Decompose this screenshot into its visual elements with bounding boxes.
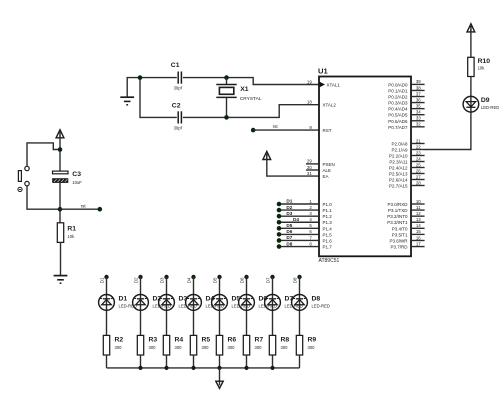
svg-text:38: 38 [416, 85, 421, 90]
svg-text:D5: D5 [286, 223, 292, 228]
terminal rst left [98, 207, 103, 212]
wire power to R10 [470, 32, 472, 58]
svg-text:P3.5/T1: P3.5/T1 [392, 232, 408, 237]
resistor R7 [243, 335, 249, 355]
LED D4 [186, 295, 202, 311]
wire R2 to rail [106, 355, 108, 368]
ground top-left [120, 97, 134, 105]
pin stub P0.4/AD4 [411, 108, 424, 110]
svg-text:25: 25 [416, 162, 421, 167]
svg-text:26: 26 [416, 168, 421, 173]
svg-text:P1.5: P1.5 [323, 232, 333, 237]
pin stub P0.1/AD1 [411, 89, 424, 91]
pin stub P2.1/A9 [411, 149, 424, 151]
svg-text:C1: C1 [171, 62, 180, 69]
svg-text:27: 27 [416, 174, 421, 179]
junction rail [217, 366, 221, 370]
push button switch [18, 166, 29, 191]
svg-text:P3.1/TXD: P3.1/TXD [388, 208, 408, 213]
svg-text:EA: EA [323, 174, 329, 179]
svg-text:11: 11 [416, 205, 421, 210]
resistor R1 [57, 223, 63, 243]
svg-text:30: 30 [307, 165, 312, 170]
wire button bottom [27, 186, 60, 209]
svg-text:15: 15 [416, 229, 421, 234]
wire net D8 to P1.7 [279, 246, 319, 248]
svg-text:D6: D6 [286, 229, 292, 234]
svg-text:P2.6/A14: P2.6/A14 [389, 178, 408, 183]
svg-text:300: 300 [175, 345, 183, 350]
svg-text:22: 22 [416, 144, 421, 149]
terminal net D1 (top of column) [104, 275, 108, 279]
svg-text:36: 36 [416, 97, 421, 102]
svg-text:U1: U1 [318, 67, 328, 76]
terminal net D8 [277, 244, 282, 249]
LED D7 [265, 295, 281, 311]
wire R1 to ground [60, 242, 62, 275]
svg-text:P1.6: P1.6 [323, 238, 333, 243]
pin stub P2.0/A8 [411, 143, 424, 145]
svg-text:P2.5/A13: P2.5/A13 [389, 172, 408, 177]
svg-text:D7: D7 [286, 235, 292, 240]
terminal net D7 (top of column) [270, 275, 274, 279]
wire net D3 to P1.2 [279, 215, 319, 217]
svg-text:D9: D9 [481, 97, 490, 104]
capacitor C2 [178, 111, 181, 123]
svg-text:D8: D8 [286, 241, 292, 246]
wire top to LED D6 [246, 277, 248, 335]
wire X1 top lead [226, 78, 228, 85]
svg-text:XTAL1: XTAL1 [327, 83, 341, 88]
wire net D6 to P1.5 [279, 233, 319, 235]
wire net D7 to P1.6 [279, 239, 319, 241]
resistor R8 [269, 335, 275, 355]
svg-text:P0.6/AD6: P0.6/AD6 [388, 119, 408, 124]
svg-text:P0.1/AD1: P0.1/AD1 [388, 88, 408, 93]
terminal net D4 [277, 220, 282, 225]
svg-text:P1.3: P1.3 [323, 220, 333, 225]
crystal X1 [216, 85, 236, 98]
svg-text:C3: C3 [72, 171, 81, 178]
svg-text:16: 16 [416, 235, 421, 240]
svg-text:LED-RED: LED-RED [481, 105, 499, 110]
pin stub ALE [306, 169, 319, 171]
svg-text:P0.5/AD5: P0.5/AD5 [388, 113, 408, 118]
wire power to EA pin [267, 159, 319, 176]
terminal net D2 [277, 208, 282, 213]
svg-text:P2.4/A12: P2.4/A12 [389, 166, 408, 171]
svg-text:P2.0/A8: P2.0/A8 [391, 142, 408, 147]
svg-text:34: 34 [416, 110, 421, 115]
svg-text:D5: D5 [213, 277, 218, 283]
svg-text:P2.2/A10: P2.2/A10 [389, 154, 408, 159]
resistor R9 [296, 335, 302, 355]
svg-text:P3.4/T0: P3.4/T0 [392, 226, 408, 231]
wire C1 left [140, 77, 177, 79]
svg-text:32: 32 [416, 122, 421, 127]
junction rail [191, 366, 195, 370]
pin XTAL1 input arrowhead [320, 82, 325, 88]
wire rst to RST pin [253, 129, 318, 131]
wire R3 to rail [140, 355, 142, 368]
svg-text:X1: X1 [240, 86, 249, 93]
op-amp U1 body (AT89C51 microcontroller) [319, 77, 411, 257]
wire power to C3 [59, 138, 61, 171]
svg-text:D4: D4 [293, 217, 299, 222]
svg-text:10uF: 10uF [72, 180, 82, 185]
svg-text:30pf: 30pf [174, 86, 183, 91]
svg-text:R1: R1 [67, 226, 76, 233]
wire ground rail [107, 367, 300, 369]
resistor R2 [103, 335, 109, 355]
svg-text:LED-RED: LED-RED [312, 304, 330, 309]
svg-text:37: 37 [416, 91, 421, 96]
power arrow C3 [56, 130, 64, 138]
svg-text:28: 28 [416, 180, 421, 185]
pin stub P3.4/T0 [411, 227, 424, 229]
wire rst stub left [60, 208, 100, 210]
pin stub PSEN [306, 163, 319, 165]
svg-text:17: 17 [416, 241, 421, 246]
svg-text:14: 14 [416, 223, 421, 228]
svg-text:P1.4: P1.4 [323, 226, 333, 231]
wire X1 bottom lead [226, 97, 228, 117]
resistor R5 [190, 335, 196, 355]
svg-text:P0.2/AD2: P0.2/AD2 [388, 95, 408, 100]
junction C1 top [138, 75, 143, 80]
terminal net D4 (top of column) [191, 275, 195, 279]
svg-text:300: 300 [281, 345, 289, 350]
svg-text:24: 24 [416, 156, 421, 161]
svg-text:D2: D2 [286, 205, 292, 210]
svg-text:31: 31 [307, 171, 312, 176]
wire top to LED D1 [106, 277, 108, 335]
svg-text:XTAL2: XTAL2 [323, 103, 337, 108]
resistor R4 [163, 335, 169, 355]
svg-text:R7: R7 [255, 337, 264, 344]
svg-text:29: 29 [307, 159, 312, 164]
svg-text:D1: D1 [286, 199, 292, 204]
pin stub P3.1/TXD [411, 209, 424, 211]
pin stub P2.6/A14 [411, 179, 424, 181]
svg-text:D4: D4 [187, 277, 192, 283]
svg-text:D1: D1 [119, 295, 128, 302]
terminal net D6 (top of column) [244, 275, 248, 279]
wire top to LED D5 [219, 277, 221, 335]
pin stub P3.2/INT0 [411, 215, 424, 217]
terminal net D6 [277, 232, 282, 237]
svg-text:R4: R4 [175, 337, 184, 344]
svg-text:D1: D1 [100, 277, 105, 283]
LED D3 [159, 295, 175, 311]
wire C2 to XTAL2 [183, 105, 319, 118]
svg-text:D3: D3 [160, 277, 165, 283]
pin stub P0.2/AD2 [411, 96, 424, 98]
svg-text:10k: 10k [478, 66, 486, 71]
LED D9 [463, 96, 479, 112]
wire net D5 to P1.4 [279, 227, 319, 229]
svg-text:R2: R2 [115, 337, 124, 344]
svg-text:P2.3/A11: P2.3/A11 [389, 160, 408, 165]
svg-text:33: 33 [416, 116, 421, 121]
svg-text:13: 13 [416, 217, 421, 222]
junction rst left [58, 207, 63, 212]
pin stub P2.4/A12 [411, 167, 424, 169]
wire R5 to rail [193, 355, 195, 368]
svg-text:P1.2: P1.2 [323, 214, 333, 219]
svg-text:C2: C2 [172, 103, 181, 110]
svg-text:300: 300 [255, 345, 263, 350]
LED D5 [212, 295, 228, 311]
svg-text:AT89C51: AT89C51 [319, 258, 340, 264]
wire net D1 to P1.0 [279, 203, 319, 205]
svg-text:R6: R6 [228, 337, 237, 344]
wire top to LED D4 [193, 277, 195, 335]
pin stub P2.7/A15 [411, 185, 424, 187]
pin stub P3.6/WR [411, 239, 424, 241]
wire button top [27, 143, 58, 166]
junction rail [138, 366, 142, 370]
svg-text:R3: R3 [149, 337, 158, 344]
svg-text:P0.3/AD3: P0.3/AD3 [388, 101, 408, 106]
resistor R10 [468, 57, 474, 76]
junction bottom of X1 [224, 115, 229, 120]
wire R8 to rail [272, 355, 274, 368]
pin stub P2.3/A11 [411, 161, 424, 163]
svg-text:10k: 10k [67, 234, 75, 239]
resistor R6 [216, 335, 222, 355]
terminal net D1 [277, 202, 282, 207]
svg-text:19: 19 [307, 79, 312, 84]
svg-text:ALE: ALE [323, 168, 332, 173]
junction rail [244, 366, 248, 370]
ground below R1 [54, 276, 68, 284]
svg-text:300: 300 [308, 345, 316, 350]
svg-text:P3.3/INT1: P3.3/INT1 [387, 220, 408, 225]
wire C3 to rst junction [59, 183, 61, 223]
pin stub P0.3/AD3 [411, 102, 424, 104]
LED D2 [133, 295, 149, 311]
wire R6 to rail [219, 355, 221, 368]
svg-text:R5: R5 [202, 337, 211, 344]
svg-text:18: 18 [307, 100, 312, 105]
terminal net D7 [277, 238, 282, 243]
wire top to LED D3 [166, 277, 168, 335]
svg-text:300: 300 [149, 345, 157, 350]
terminal net D8 (top of column) [297, 275, 301, 279]
capacitor C1 [178, 72, 181, 84]
svg-text:D3: D3 [286, 211, 292, 216]
resistor R3 [137, 335, 143, 355]
wire C1 to XTAL1 [183, 78, 319, 85]
svg-text:PSEN: PSEN [323, 162, 335, 167]
svg-text:P3.6/WR: P3.6/WR [389, 238, 408, 243]
svg-text:10: 10 [416, 199, 421, 204]
svg-text:23: 23 [416, 150, 421, 155]
svg-text:30pf: 30pf [174, 125, 183, 130]
svg-text:D2: D2 [134, 277, 139, 283]
svg-text:R9: R9 [308, 337, 317, 344]
junction rail [270, 366, 274, 370]
svg-text:P3.0/RXD: P3.0/RXD [387, 202, 408, 207]
svg-text:rst: rst [81, 203, 87, 208]
svg-text:R10: R10 [478, 58, 491, 65]
svg-text:P0.0/AD0: P0.0/AD0 [388, 82, 408, 87]
capacitor C3 (electrolytic) [53, 171, 69, 183]
wire net D4 to P1.3 [279, 221, 319, 223]
svg-text:P3.2/INT0: P3.2/INT0 [387, 214, 408, 219]
svg-text:D8: D8 [293, 277, 298, 283]
svg-text:CRYSTAL: CRYSTAL [240, 96, 262, 102]
svg-text:D8: D8 [312, 295, 321, 302]
pin stub P0.0/AD0 [411, 83, 424, 85]
wire R4 to rail [166, 355, 168, 368]
svg-text:rst: rst [273, 124, 279, 129]
svg-text:P1.0: P1.0 [323, 202, 333, 207]
wire R7 to rail [246, 355, 248, 368]
junction C3 top [58, 147, 63, 152]
wire net D2 to P1.1 [279, 209, 319, 211]
wire top to LED D7 [272, 277, 274, 335]
pin stub P2.5/A13 [411, 173, 424, 175]
terminal net D2 (top of column) [138, 275, 142, 279]
pin stub P0.5/AD5 [411, 114, 424, 116]
pin stub P3.3/INT1 [411, 221, 424, 223]
wire R10 to D9 [424, 77, 471, 150]
wire R9 to rail [299, 355, 301, 368]
LED D8 [292, 295, 308, 311]
svg-text:P0.4/AD4: P0.4/AD4 [388, 107, 408, 112]
terminal rst right [251, 128, 256, 133]
svg-text:RST: RST [323, 128, 332, 133]
terminal net D5 [277, 226, 282, 231]
svg-text:D7: D7 [266, 277, 271, 283]
wire top to LED D8 [299, 277, 301, 335]
svg-text:300: 300 [228, 345, 236, 350]
junction rail [164, 366, 168, 370]
wire gnd branch top-left [127, 78, 140, 97]
wire C1-C2 vertical [140, 78, 177, 118]
svg-text:P1.7: P1.7 [323, 245, 333, 250]
svg-text:P3.7/RD: P3.7/RD [390, 245, 408, 250]
ground arrow (rail) [216, 368, 223, 388]
svg-text:39: 39 [416, 79, 421, 84]
svg-text:R8: R8 [281, 337, 290, 344]
pin stub P3.0/RXD [411, 203, 424, 205]
svg-text:P2.1/A9: P2.1/A9 [391, 148, 408, 153]
terminal net D3 [277, 214, 282, 219]
terminal net D5 (top of column) [217, 275, 221, 279]
LED D6 [239, 295, 255, 311]
svg-text:P1.1: P1.1 [323, 208, 333, 213]
wire top to LED D2 [140, 277, 142, 335]
svg-text:35: 35 [416, 103, 421, 108]
LED D1 [99, 295, 115, 311]
pin stub P0.6/AD6 [411, 120, 424, 122]
pin stub P2.2/A10 [411, 155, 424, 157]
pin stub P3.7/RD [411, 246, 424, 248]
pin stub P3.5/T1 [411, 233, 424, 235]
svg-text:P2.7/A15: P2.7/A15 [389, 184, 408, 189]
svg-text:300: 300 [202, 345, 210, 350]
pin stub P0.7/AD7 [411, 126, 424, 128]
junction top of X1 [224, 75, 229, 80]
svg-text:P0.7/AD7: P0.7/AD7 [388, 125, 408, 130]
svg-text:21: 21 [416, 138, 421, 143]
svg-text:12: 12 [416, 211, 421, 216]
svg-text:300: 300 [115, 345, 123, 350]
svg-text:D6: D6 [240, 277, 245, 283]
power arrow R10 [467, 24, 475, 32]
power arrow EA [263, 151, 271, 159]
terminal net D3 (top of column) [164, 275, 168, 279]
